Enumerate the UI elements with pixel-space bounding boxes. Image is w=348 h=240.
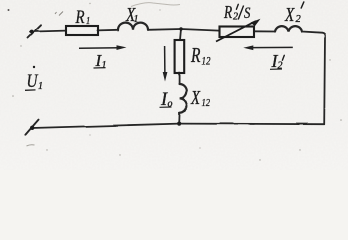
label R12 [190,44,210,68]
svg-text:1: 1 [86,16,90,27]
svg-text:o: o [168,99,173,110]
label I0 (underlined) [160,90,173,110]
terminal slash bottom-left [26,120,39,135]
label X1 [125,3,138,26]
resistor R1 [66,26,98,35]
terminal blob bottom-left [30,126,34,130]
terminal blob top-left [30,30,34,34]
svg-text:2: 2 [278,61,283,72]
wire R12 to X12 [179,73,181,84]
wire top-left from terminal to R1 [30,31,66,32]
svg-text:12: 12 [202,97,211,109]
wire node A down to R12 [180,29,181,40]
current arrow I1 [79,45,127,50]
terminal slash top-left [28,25,41,37]
resistor R2'/S (variable) [220,27,255,38]
wire R2'/S to X2' [254,30,275,32]
inductor X12 [180,84,187,113]
svg-text:1: 1 [134,14,139,25]
label R2'/S [223,3,250,22]
label X12 [190,86,210,110]
wire node A to R2'/S [181,29,219,31]
faint stroke bottom-left [27,145,35,146]
inductor X1 [118,23,148,30]
label R1 [75,6,91,27]
svg-text:12: 12 [202,56,211,68]
label I1 (underlined) [94,51,107,71]
inductor X2' [275,26,302,31]
svg-text:R: R [190,44,201,68]
wire X12 to bottom node [178,113,180,124]
wire right side vertical [323,37,326,124]
label X2' [284,2,304,26]
label U1 (dot above, underlined) [25,66,43,92]
svg-text:1: 1 [38,81,43,92]
resistor R12 [175,40,185,73]
svg-text:2: 2 [233,12,238,23]
rheostat arrow through R2'/S [216,19,261,42]
svg-text:X: X [190,86,201,109]
current arrow I0 [163,46,168,82]
node A junction dot [179,27,182,30]
faint pencil squiggle top middle [131,3,180,7]
speckle noise [8,3,342,161]
svg-text:2: 2 [296,14,302,25]
faint mark near top-left [55,12,63,16]
label I2' (underlined) [270,51,284,72]
paper background [0,0,348,170]
wire bottom right segment [179,123,324,126]
svg-text:1: 1 [102,60,107,71]
wire X1 to node A [148,28,181,31]
wire X2' to top-right corner [302,32,325,37]
svg-text:X: X [284,3,295,26]
svg-text:R: R [223,3,232,22]
svg-text:R: R [75,6,85,27]
bottom node junction dot [177,122,181,126]
current arrow I2' [243,45,292,50]
svg-text:S: S [244,5,250,23]
wire R1 to X1 [98,29,118,32]
wire bottom left segment [32,124,179,128]
